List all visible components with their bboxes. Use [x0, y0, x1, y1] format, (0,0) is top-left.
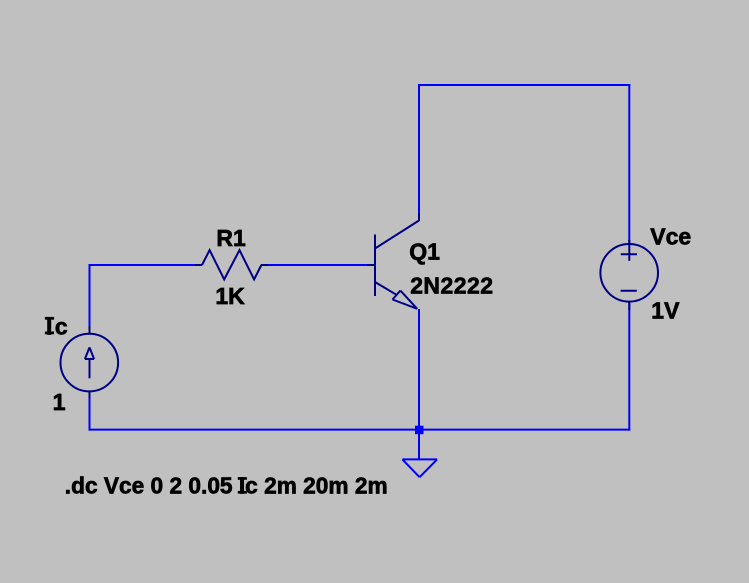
svg-text:Q1: Q1 — [409, 239, 440, 265]
svg-text:1: 1 — [53, 389, 66, 415]
svg-text:2N2222: 2N2222 — [410, 273, 493, 299]
svg-text:Vce: Vce — [650, 223, 691, 249]
svg-text:1V: 1V — [651, 297, 680, 323]
svg-text:R1: R1 — [216, 225, 246, 251]
svg-text:1K: 1K — [215, 283, 245, 309]
svg-text:.dc Vce 0 2 0.05 Ic 2m 20m 2m: .dc Vce 0 2 0.05 Ic 2m 20m 2m — [65, 473, 388, 499]
